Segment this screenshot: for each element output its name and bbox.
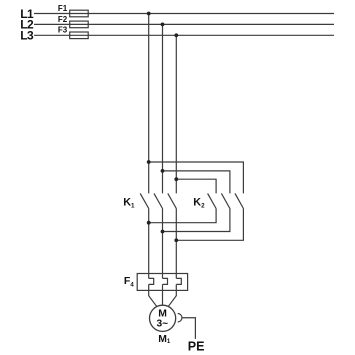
wire K2 return pole 3 to phase W xyxy=(176,209,243,241)
junction phase U on L1 xyxy=(147,12,151,16)
junction K2 feed tap phase V xyxy=(161,169,165,173)
contactor K2 pole 3 contact xyxy=(235,193,243,208)
junction K2 return phase W xyxy=(174,238,178,242)
svg-text:F2: F2 xyxy=(58,15,68,24)
wire K2 return pole 1 to phase U xyxy=(149,209,216,223)
junction K2 return phase V xyxy=(161,230,165,234)
fuse F3 xyxy=(70,32,89,39)
contactor K2 pole 2 contact xyxy=(221,193,230,208)
overload relay F4 body xyxy=(137,274,187,291)
contactor K1 pole 2 contact xyxy=(154,193,163,208)
wire F4 pole 1 to motor terminal U xyxy=(149,284,157,306)
fuse F2 xyxy=(70,21,89,28)
svg-text:F3: F3 xyxy=(58,26,68,35)
junction K2 feed tap phase U xyxy=(147,160,151,164)
svg-text:K2: K2 xyxy=(193,197,205,210)
wire phase V below K1 to overload F4 xyxy=(162,209,164,279)
wire phase V from L2 to K1 pole 2 xyxy=(162,24,164,193)
wire phase U below K1 to overload F4 xyxy=(148,209,150,279)
wire F4 pole 3 to motor terminal W xyxy=(168,284,176,306)
svg-text:M1: M1 xyxy=(158,334,171,345)
fuse F1 xyxy=(70,10,89,17)
wire phase W from L3 to K1 pole 3 xyxy=(175,35,177,193)
motor M1 body circle xyxy=(150,305,176,331)
junction K2 feed tap phase W xyxy=(174,177,178,181)
wire K2 feed from phase V to K2 pole 2 xyxy=(163,171,230,194)
wire PE conductor xyxy=(182,318,196,339)
junction K2 return phase U xyxy=(147,221,151,225)
overload F4 heater element pole 2 xyxy=(163,278,168,284)
net L2 rail xyxy=(34,23,334,25)
wire K2 return pole 2 to phase V xyxy=(163,209,230,232)
overload F4 heater element pole 3 xyxy=(176,278,181,284)
svg-text:K1: K1 xyxy=(123,197,135,210)
junction phase W on L3 xyxy=(174,33,178,37)
svg-text:L3: L3 xyxy=(20,28,34,42)
contactor K1 pole 3 contact xyxy=(168,193,177,208)
net L1 rail xyxy=(34,13,334,15)
motor M1 PE terminal arc xyxy=(178,314,182,323)
overload F4 heater element pole 1 xyxy=(149,278,154,284)
svg-text:F4: F4 xyxy=(124,275,134,289)
svg-text:PE: PE xyxy=(188,340,205,354)
wire phase U from L1 to K1 pole 1 xyxy=(148,14,150,194)
net L3 rail xyxy=(34,34,334,36)
wire K2 feed from phase U to K2 pole 3 xyxy=(149,162,244,193)
contactor K1 pole 1 contact xyxy=(140,193,149,208)
wire phase W below K1 to overload F4 xyxy=(175,209,177,279)
svg-text:3~: 3~ xyxy=(156,319,168,330)
contactor K2 pole 1 contact xyxy=(208,193,217,208)
wire F4 pole 2 to motor terminal V xyxy=(162,284,164,305)
junction phase V on L2 xyxy=(161,23,165,27)
svg-text:F1: F1 xyxy=(58,4,68,13)
wire K2 feed from phase W to K2 pole 1 xyxy=(176,179,216,193)
